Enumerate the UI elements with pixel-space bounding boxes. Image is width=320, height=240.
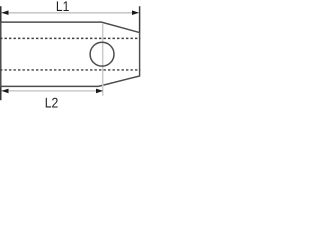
- right extension line: [139, 6, 141, 32]
- svg-text:L2: L2: [45, 94, 59, 110]
- hidden line upper bore: [0, 37, 140, 39]
- svg-text:L1: L1: [56, 0, 70, 14]
- arrowhead L2 left: [2, 89, 9, 94]
- centerline of hole: [102, 23, 104, 96]
- hidden line lower bore: [0, 69, 140, 71]
- arrowhead L1 left: [2, 10, 9, 15]
- hole circle: [90, 42, 114, 66]
- arrowhead L1 right: [132, 10, 139, 15]
- arrowhead L2 right: [96, 89, 103, 94]
- dimension line L1: [2, 12, 139, 14]
- part outline: [1, 22, 140, 86]
- dimension line L2: [2, 90, 103, 92]
- background: [0, 0, 141, 112]
- left extension line: [0, 6, 2, 100]
